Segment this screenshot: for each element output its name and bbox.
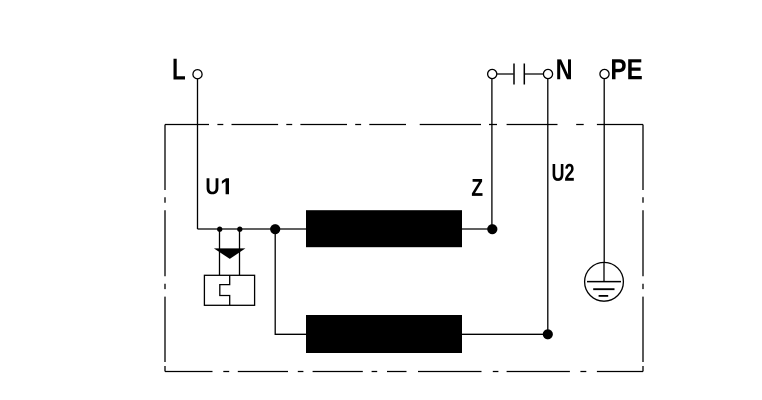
enclosure border bottom side	[165, 371, 643, 373]
thermal protector triangle	[214, 248, 246, 259]
terminal L	[193, 70, 202, 79]
protective earth stem	[603, 263, 605, 282]
terminal Z (capacitor left)	[488, 69, 497, 78]
capacitor plates	[514, 64, 524, 85]
protective earth bar medium	[593, 288, 614, 290]
wire thermal protector right lead	[239, 229, 241, 275]
junction dot small 2	[237, 227, 242, 232]
enclosure border (dash-dot) top side	[165, 124, 643, 126]
label PE	[612, 59, 642, 79]
thermal protector contact	[220, 275, 230, 305]
junction node A (big dot)	[270, 224, 280, 234]
junction dot small 1	[217, 227, 222, 232]
enclosure border left side	[164, 125, 166, 372]
protective earth symbol circle	[585, 262, 624, 301]
wire U2 vertical to N	[547, 79, 549, 335]
terminal PE	[600, 69, 609, 78]
thermal protector TP body	[204, 275, 254, 305]
wire capacitor right lead	[525, 73, 543, 75]
wire winding2 right	[462, 333, 548, 335]
winding (lower black bar)	[306, 315, 462, 353]
wire capacitor left lead	[497, 73, 514, 75]
junction node Z (dot)	[487, 224, 497, 234]
label U2	[553, 164, 574, 181]
label Z	[472, 179, 483, 196]
terminal N	[543, 69, 552, 78]
label U1	[207, 178, 229, 194]
wire main horizontal U1 node	[198, 228, 307, 230]
label L	[174, 59, 186, 80]
wire winding1 right to Z node	[462, 228, 492, 230]
wire left branch down	[275, 229, 306, 334]
junction node U2 (dot)	[543, 329, 553, 339]
winding (upper black bar)	[306, 210, 462, 247]
wire Z vertical	[491, 79, 493, 229]
label N	[557, 59, 571, 79]
protective earth bar long	[587, 281, 621, 283]
wire thermal protector left lead	[219, 229, 221, 275]
wire PE down	[603, 79, 605, 263]
wire L down	[197, 79, 199, 229]
protective earth bar short	[599, 295, 609, 297]
enclosure border right side	[642, 125, 644, 372]
